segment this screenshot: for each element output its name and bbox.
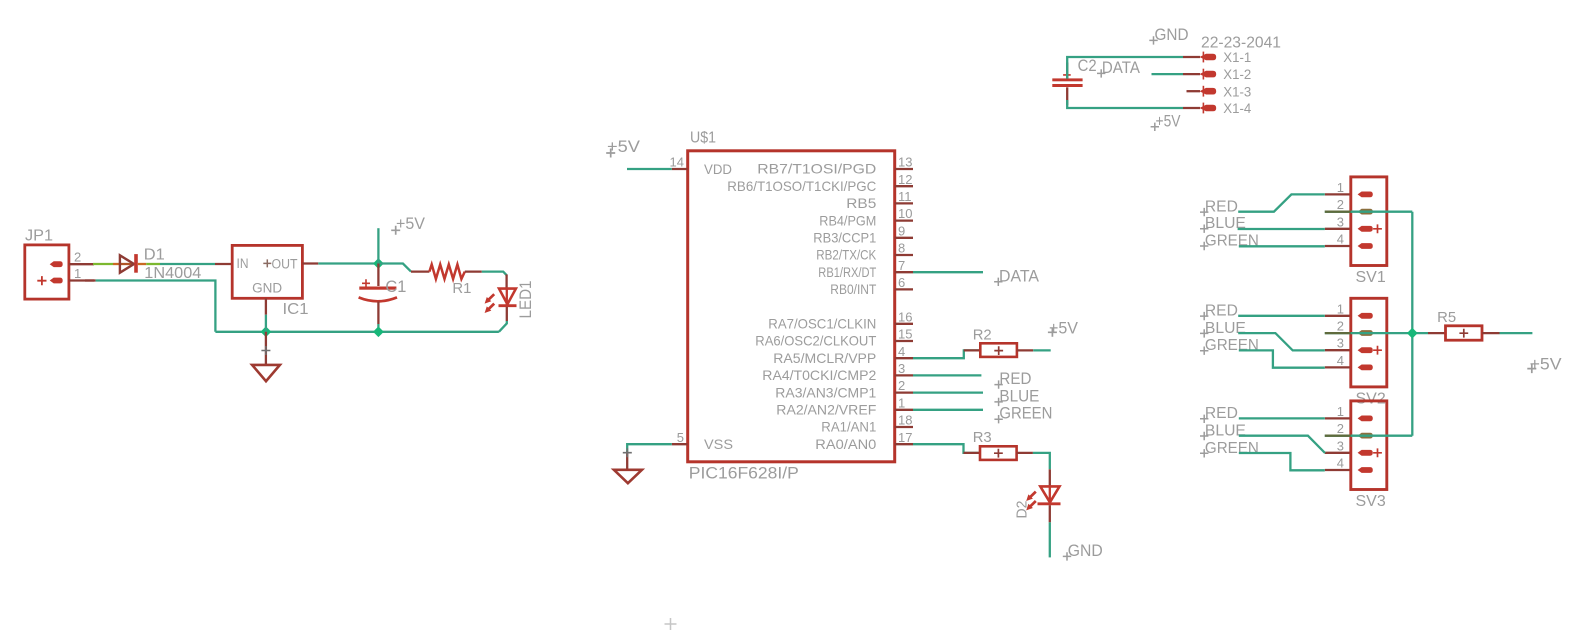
capacitor C1: [359, 264, 407, 332]
ground symbol below VSS: [614, 448, 642, 483]
svg-text:RA1/AN1: RA1/AN1: [821, 419, 876, 435]
resistor R3: [973, 429, 1017, 460]
voltage regulator IC1: [232, 245, 308, 318]
svg-text:RA2/AN2/VREF: RA2/AN2/VREF: [776, 402, 876, 418]
svg-text:9: 9: [898, 223, 905, 238]
label DATA: [994, 267, 1039, 286]
wire GREEN to SV1 pin4: [1239, 245, 1325, 247]
svg-text:GREEN: GREEN: [999, 405, 1052, 423]
svg-text:RB5: RB5: [846, 195, 876, 211]
svg-text:3: 3: [1337, 438, 1344, 453]
label GREEN at SV1: [1200, 233, 1259, 251]
svg-text:RB7/T1OSI/PGD: RB7/T1OSI/PGD: [757, 161, 876, 177]
svg-text:R3: R3: [973, 429, 992, 446]
svg-text:C2: C2: [1078, 57, 1097, 75]
vertical bus SV1-SV2-SV3 pin2: [1411, 212, 1413, 436]
wire GREEN to SV3 pin4: [1239, 453, 1325, 470]
svg-text:3: 3: [1337, 214, 1344, 229]
svg-text:RED: RED: [1205, 199, 1238, 216]
wire pin1 GREEN net: [913, 409, 983, 411]
supply +5V near C1: [378, 214, 425, 264]
svg-text:4: 4: [1337, 232, 1344, 247]
svg-text:1: 1: [74, 266, 81, 281]
svg-text:RA4/T0CKI/CMP2: RA4/T0CKI/CMP2: [762, 367, 876, 383]
svg-text:SV1: SV1: [1356, 269, 1386, 286]
node junction at C1 top: [373, 258, 384, 269]
wire pin4 to R2: [913, 350, 980, 358]
wire R5 to +5V: [1482, 332, 1532, 334]
svg-text:GREEN: GREEN: [1205, 440, 1259, 457]
svg-text:IC1: IC1: [283, 301, 309, 318]
svg-text:7: 7: [898, 258, 905, 273]
svg-text:X1-1: X1-1: [1223, 49, 1251, 65]
svg-text:4: 4: [898, 344, 905, 359]
svg-text:1: 1: [898, 395, 905, 410]
wire BLUE to SV1 pin3: [1238, 228, 1325, 230]
microcontroller U$1 PIC16F628I/P: [688, 130, 895, 483]
svg-text:2: 2: [1337, 319, 1344, 334]
svg-text:2: 2: [1337, 197, 1344, 212]
label BLUE at SV2: [1200, 320, 1246, 338]
wire LED1 cathode to ground rail: [499, 307, 507, 332]
pin 17 RA0/AN0: [815, 430, 913, 452]
svg-text:R1: R1: [452, 280, 471, 297]
label GREEN at SV2: [1200, 337, 1259, 355]
wire C2 bottom to X1-4: [1067, 100, 1183, 108]
wire pin3 RED net: [913, 374, 981, 376]
svg-text:11: 11: [898, 189, 912, 204]
label BLUE (mid): [994, 387, 1039, 406]
label RED at SV2: [1200, 303, 1238, 321]
pin 11 RB5: [846, 189, 913, 211]
svg-text:RA0/AN0: RA0/AN0: [815, 436, 876, 452]
svg-text:JP1: JP1: [25, 228, 53, 245]
resistor R5: [1428, 309, 1482, 340]
svg-text:2: 2: [898, 378, 905, 393]
svg-text:18: 18: [898, 413, 912, 428]
pin 12 RB6/T1OSO/T1CKI/PGC: [727, 172, 913, 194]
svg-text:RA5/MCLR/VPP: RA5/MCLR/VPP: [773, 350, 876, 366]
svg-text:+5V: +5V: [1156, 112, 1181, 130]
diode D1 1N4004: [120, 246, 202, 282]
svg-text:RA3/AN3/CMP1: RA3/AN3/CMP1: [775, 384, 876, 400]
resistor R1: [429, 264, 471, 297]
svg-text:X1-3: X1-3: [1223, 83, 1251, 99]
svg-text:17: 17: [898, 430, 912, 445]
pin header SV3: [1325, 401, 1387, 510]
svg-text:1: 1: [1337, 180, 1344, 195]
wire R3 to D2: [1017, 453, 1050, 469]
pin X1-3: [1187, 83, 1252, 99]
label GND top right: [1149, 26, 1188, 44]
supply +5V top right: [1151, 112, 1181, 131]
pin 16 RA7/OSC1/CLKIN: [768, 309, 913, 331]
wire RED to SV2 pin1: [1238, 315, 1325, 317]
svg-text:OUT: OUT: [272, 256, 298, 271]
LED LED1: [485, 275, 535, 319]
svg-text:2: 2: [1337, 421, 1344, 436]
svg-text:8: 8: [898, 241, 905, 256]
svg-text:RED: RED: [1205, 303, 1238, 320]
svg-text:DATA: DATA: [1102, 59, 1140, 77]
wire pin2 BLUE net: [913, 391, 983, 393]
wire JP1 pin1 down to ground rail: [85, 281, 215, 332]
svg-text:14: 14: [670, 155, 684, 170]
wire R1 left stub: [411, 270, 429, 272]
svg-text:5: 5: [677, 430, 684, 445]
svg-text:RB3/CCP1: RB3/CCP1: [813, 230, 876, 246]
wire VSS to ground: [627, 444, 672, 451]
wire SV1 pin2 to bus: [1325, 211, 1413, 213]
wire SV3 pin2 to bus: [1325, 435, 1413, 437]
ground rail wire: [215, 331, 499, 333]
svg-text:GND: GND: [1155, 26, 1189, 44]
svg-text:GREEN: GREEN: [1205, 337, 1259, 354]
pin 8 RB2/TX/CK: [816, 241, 913, 263]
svg-text:X1-4: X1-4: [1223, 100, 1251, 116]
svg-text:10: 10: [898, 206, 912, 221]
svg-text:+5V: +5V: [1049, 319, 1078, 337]
svg-text:3: 3: [1337, 336, 1344, 351]
svg-text:RED: RED: [1205, 405, 1238, 422]
pin 3 RA4/T0CKI/CMP2: [762, 361, 913, 383]
pin 9 RB3/CCP1: [813, 223, 913, 245]
wire GREEN to SV2 pin4: [1239, 350, 1325, 367]
pin 4 RA5/MCLR/VPP: [773, 344, 913, 366]
pin X1-1: [1183, 49, 1251, 65]
wire RED to SV3 pin1: [1239, 417, 1325, 419]
svg-text:2: 2: [74, 250, 81, 265]
wire R2 to +5V: [1017, 349, 1051, 351]
svg-text:RED: RED: [999, 370, 1031, 388]
svg-text:X1-2: X1-2: [1223, 66, 1251, 82]
svg-text:+5V: +5V: [607, 137, 641, 156]
svg-text:4: 4: [1337, 456, 1344, 471]
pin header SV2: [1325, 298, 1387, 407]
svg-text:SV3: SV3: [1356, 493, 1386, 510]
svg-text:GND: GND: [252, 280, 282, 295]
label RED at SV1: [1200, 199, 1238, 217]
wire IC1 GND pin to rail: [265, 298, 267, 332]
label GND at D2: [1063, 542, 1103, 561]
wire +5V node to R1: [378, 264, 411, 272]
pin 10 RB4/PGM: [819, 206, 913, 228]
wire SV2 pin2 to R5: [1325, 332, 1428, 334]
wire BLUE to SV2 pin3: [1238, 333, 1325, 350]
svg-text:16: 16: [898, 309, 912, 324]
supply +5V at R2: [1048, 319, 1078, 337]
wire pin7 DATA net: [913, 271, 983, 273]
svg-text:1: 1: [1337, 301, 1344, 316]
pin X1-4: [1183, 100, 1251, 116]
junction C1 at rail: [373, 326, 384, 337]
label RED (mid): [994, 370, 1031, 389]
supply +5V at VDD: [606, 137, 640, 158]
junction IC1 GND at rail: [261, 326, 272, 337]
pin 5 VSS: [672, 430, 733, 452]
svg-text:C1: C1: [385, 278, 406, 296]
pin 6 RB0/INT: [830, 275, 913, 297]
wire IC1 OUT to +5V node: [302, 262, 378, 264]
connector JP1: [25, 228, 94, 300]
svg-text:U$1: U$1: [690, 130, 716, 147]
wire RED to SV1 pin1: [1238, 194, 1325, 211]
svg-text:SV2: SV2: [1356, 390, 1386, 407]
svg-text:VSS: VSS: [704, 436, 733, 452]
svg-text:15: 15: [898, 327, 912, 342]
svg-text:1: 1: [1337, 404, 1344, 419]
wire DATA to X1-2: [1152, 73, 1184, 75]
svg-text:BLUE: BLUE: [999, 387, 1039, 405]
svg-text:VDD: VDD: [704, 161, 732, 177]
wire C2 top to X1-1: [1067, 57, 1183, 79]
ground symbol below IC1: [252, 332, 280, 381]
wire pin17 to R3: [913, 444, 980, 453]
wire D2 cathode to GND: [1049, 505, 1051, 557]
pin 2 RA3/AN3/CMP1: [775, 378, 913, 400]
pin 15 RA6/OSC2/CLKOUT: [755, 327, 913, 349]
pin 18 RA1/AN1: [821, 413, 913, 435]
svg-text:RA7/OSC1/CLKIN: RA7/OSC1/CLKIN: [768, 316, 876, 332]
label BLUE at SV1: [1200, 215, 1246, 233]
svg-text:4: 4: [1337, 353, 1344, 368]
wire R1 to LED1: [465, 272, 507, 276]
pin 1 RA2/AN2/VREF: [776, 395, 913, 417]
svg-text:PIC16F628I/P: PIC16F628I/P: [689, 465, 799, 483]
svg-text:RA6/OSC2/CLKOUT: RA6/OSC2/CLKOUT: [755, 333, 876, 349]
svg-text:6: 6: [898, 275, 905, 290]
svg-text:R2: R2: [973, 327, 992, 344]
resistor R2: [973, 327, 1017, 357]
pin header SV1: [1325, 177, 1387, 286]
label GREEN (mid): [994, 405, 1052, 424]
junction bus at R5: [1407, 328, 1418, 339]
wire D1 cathode to IC1 IN: [138, 263, 232, 265]
svg-text:LED1: LED1: [517, 281, 535, 319]
svg-text:3: 3: [898, 361, 905, 376]
svg-text:IN: IN: [237, 256, 249, 271]
svg-text:RB4/PGM: RB4/PGM: [819, 212, 876, 228]
label GREEN at SV3: [1200, 440, 1259, 458]
pin 7 RB1/RX/DT: [818, 258, 913, 280]
svg-text:12: 12: [898, 172, 912, 187]
capacitor C2: [1052, 57, 1096, 105]
svg-text:RB6/T1OSO/T1CKI/PGC: RB6/T1OSO/T1CKI/PGC: [727, 178, 876, 194]
svg-text:RB1/RX/DT: RB1/RX/DT: [818, 264, 876, 280]
svg-text:+5V: +5V: [1530, 356, 1562, 374]
svg-text:GND: GND: [1068, 542, 1103, 560]
pin X1-2: [1183, 66, 1251, 82]
pin 14 VDD: [670, 155, 732, 177]
svg-text:RB0/INT: RB0/INT: [830, 281, 876, 297]
svg-text:+5V: +5V: [396, 214, 426, 233]
svg-text:D2: D2: [1014, 501, 1031, 519]
svg-text:13: 13: [898, 155, 912, 170]
wire BLUE to SV3 pin3: [1239, 436, 1325, 453]
svg-text:DATA: DATA: [999, 267, 1039, 285]
wire +5V to VDD: [627, 168, 672, 170]
label RED at SV3: [1200, 405, 1238, 423]
svg-text:D1: D1: [144, 246, 165, 263]
supply +5V at R5: [1527, 356, 1561, 374]
wire JP1 pin2 to D1 anode (overlap colours): [93, 263, 119, 265]
svg-text:RB2/TX/CK: RB2/TX/CK: [816, 247, 877, 263]
label BLUE at SV3: [1200, 422, 1246, 440]
sheet origin cross: [665, 618, 677, 630]
svg-text:R5: R5: [1437, 309, 1456, 326]
label DATA top right: [1097, 59, 1140, 78]
LED D2: [1014, 469, 1061, 518]
pin 13 RB7/T1OSI/PGD: [757, 155, 913, 177]
